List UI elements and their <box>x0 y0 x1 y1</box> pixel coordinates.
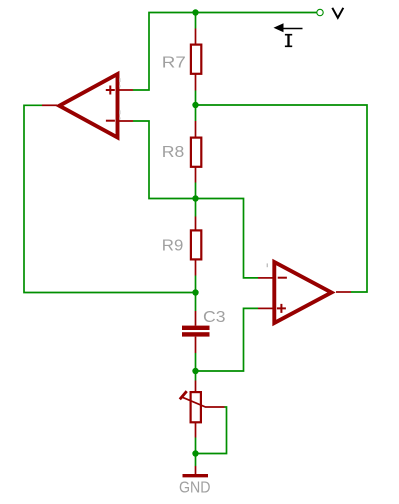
wire C3 bottom to node D <box>195 353 197 371</box>
node D (C3/trimmer) <box>192 368 198 374</box>
wire R8 bottom to node B <box>195 183 197 199</box>
terminal V open pin circle <box>317 9 323 15</box>
wire from U1 output down-left and to node C <box>24 105 196 292</box>
wire R9 bottom to node C <box>195 276 197 293</box>
svg-text:R8: R8 <box>162 144 185 161</box>
wire top rail from left corner to V terminal <box>133 13 317 91</box>
svg-text:GND: GND <box>179 479 211 496</box>
wire R7 bottom to node A <box>195 91 197 106</box>
node E (trimmer/gnd) <box>192 450 198 456</box>
node B (R8/R9) <box>192 195 198 201</box>
wire node D to trimmer top <box>195 371 197 381</box>
svg-text:R7: R7 <box>162 55 186 72</box>
wire top rail segment under node at R7 <box>195 13 197 29</box>
node at top rail <box>192 9 198 15</box>
wire node B to R9 top <box>195 199 197 217</box>
ground <box>179 466 211 496</box>
op-amp U2 (right, pointing right) <box>258 262 351 323</box>
wire node A to R8 top <box>195 105 197 121</box>
resistor R7 <box>162 29 201 91</box>
wire node E to ground <box>195 454 197 467</box>
svg-text:C3: C3 <box>203 309 226 326</box>
resistor R9 <box>162 217 201 276</box>
wire node C to C3 top <box>195 293 197 312</box>
wire from minus input of U1 down to node B <box>133 121 196 199</box>
trimmer resistor <box>180 381 225 438</box>
svg-text:R9: R9 <box>162 238 184 255</box>
node A (R7/R8) <box>192 102 198 108</box>
wire from node B to U2 inverting input <box>196 199 259 278</box>
current arrow I <box>274 23 303 46</box>
wire trimmer wiper bypass to node E <box>196 407 227 454</box>
wire from node D to U2 non-inverting input <box>196 308 259 371</box>
op-amp U1 (left, pointing left) <box>42 74 133 138</box>
label V <box>332 8 343 18</box>
wire trimmer bottom to node E <box>195 438 197 454</box>
wire from node A right and down to U2 output <box>196 105 368 292</box>
resistor R8 <box>162 121 201 183</box>
capacitor C3 <box>182 309 226 353</box>
node C (R9/C3) <box>192 289 198 295</box>
